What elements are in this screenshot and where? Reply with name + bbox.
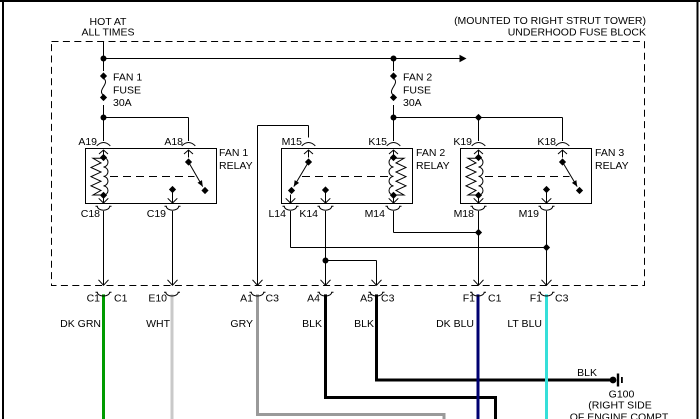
svg-text:A5: A5: [360, 293, 373, 305]
svg-text:GRY: GRY: [230, 318, 253, 330]
svg-text:A4: A4: [307, 293, 320, 305]
svg-text:C19: C19: [147, 208, 166, 220]
svg-text:OF ENGINE COMPT: OF ENGINE COMPT: [570, 412, 669, 419]
svg-text:K15: K15: [368, 136, 387, 148]
svg-text:C3: C3: [266, 293, 280, 305]
svg-text:A1: A1: [240, 293, 253, 305]
svg-text:C18: C18: [81, 208, 100, 220]
svg-text:C1: C1: [114, 293, 128, 305]
svg-text:F1: F1: [463, 293, 475, 305]
svg-text:M19: M19: [519, 208, 540, 220]
svg-text:M14: M14: [365, 208, 386, 220]
svg-text:(MOUNTED TO RIGHT STRUT TOWER): (MOUNTED TO RIGHT STRUT TOWER): [454, 15, 646, 27]
svg-text:FAN 1: FAN 1: [219, 147, 248, 159]
svg-text:BLK: BLK: [302, 318, 322, 330]
svg-text:BLK: BLK: [354, 318, 374, 330]
svg-text:WHT: WHT: [146, 318, 170, 330]
svg-text:FAN 2: FAN 2: [416, 147, 445, 159]
svg-text:C3: C3: [555, 293, 569, 305]
svg-text:FAN 2: FAN 2: [403, 72, 432, 84]
svg-text:E10: E10: [148, 293, 167, 305]
svg-text:F1: F1: [530, 293, 542, 305]
svg-text:L14: L14: [268, 208, 286, 220]
svg-text:FAN 1: FAN 1: [113, 72, 142, 84]
svg-text:DK BLU: DK BLU: [436, 318, 474, 330]
svg-text:30A: 30A: [403, 97, 422, 109]
svg-text:K18: K18: [537, 136, 556, 148]
svg-text:RELAY: RELAY: [219, 160, 253, 172]
svg-text:(RIGHT SIDE: (RIGHT SIDE: [588, 400, 651, 412]
svg-text:A19: A19: [78, 136, 97, 148]
svg-text:A18: A18: [164, 136, 183, 148]
svg-text:RELAY: RELAY: [416, 160, 450, 172]
svg-text:FUSE: FUSE: [113, 85, 141, 97]
svg-text:M15: M15: [282, 136, 303, 148]
svg-text:FAN 3: FAN 3: [595, 147, 624, 159]
svg-text:C1: C1: [488, 293, 502, 305]
svg-text:DK GRN: DK GRN: [60, 318, 101, 330]
svg-text:ALL TIMES: ALL TIMES: [81, 27, 134, 39]
svg-text:BLK: BLK: [577, 367, 597, 379]
svg-text:FUSE: FUSE: [403, 85, 431, 97]
svg-text:UNDERHOOD FUSE BLOCK: UNDERHOOD FUSE BLOCK: [508, 27, 646, 39]
svg-text:30A: 30A: [113, 97, 132, 109]
svg-text:C1: C1: [87, 293, 101, 305]
svg-text:LT BLU: LT BLU: [507, 318, 542, 330]
svg-text:RELAY: RELAY: [595, 160, 629, 172]
svg-text:C3: C3: [381, 293, 395, 305]
svg-text:K19: K19: [453, 136, 472, 148]
svg-text:K14: K14: [299, 208, 318, 220]
svg-text:M18: M18: [454, 208, 475, 220]
